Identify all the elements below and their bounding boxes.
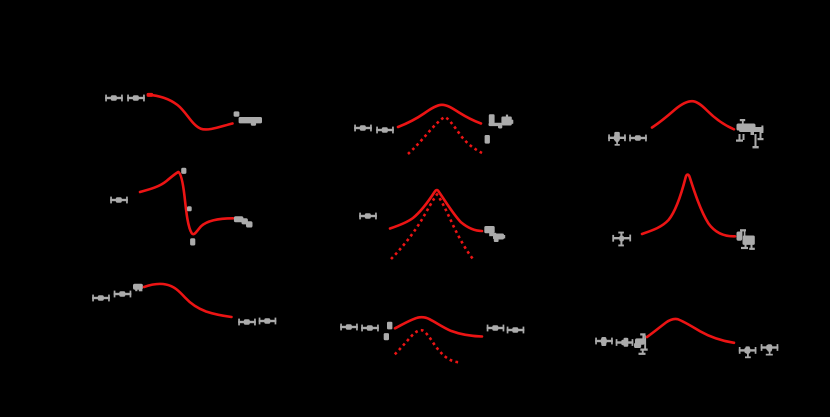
tall blob overlay (I left 1) — [601, 337, 606, 346]
product structure blob G — [736, 119, 764, 148]
energy curve B (peak then deep minimum) — [140, 172, 233, 234]
molecule label H-H (E left) — [359, 213, 377, 220]
molecule label H-H (C left 1) — [92, 295, 110, 302]
molecule label H-H (D left 1) — [354, 125, 372, 132]
energy curve D solid (activation barrier) — [398, 105, 481, 127]
energy curve F solid (low bump) — [395, 317, 482, 336]
energy curve C (gentle exothermic S) — [144, 284, 232, 317]
molecule label H-H (F right 2) — [507, 327, 525, 334]
energy curve F dashed (low bump) — [395, 330, 460, 362]
product label blob E — [484, 226, 505, 242]
dagger structure blob (I left 3) — [634, 333, 648, 355]
molecule label H-H (F right 1) — [487, 325, 505, 332]
molecule label H-H (G left 2) — [629, 135, 647, 142]
molecule label H-H funnel (G left 1) — [608, 134, 626, 141]
molecule label H-H (I right 1) — [739, 347, 757, 354]
intermediate blob (B middle) — [187, 206, 192, 211]
energy curve H (tall sharp barrier) — [642, 175, 735, 237]
molecule label H-H (F left 2) — [361, 325, 379, 332]
tall blob and foot (I right 1) — [745, 346, 751, 358]
stacked label blobs (F ts mark) — [384, 322, 393, 341]
tall blob overlay (I left 2) — [624, 338, 629, 347]
tall blob and foot (I right 2) — [766, 344, 773, 355]
molecule label H-H (I left 2) — [616, 339, 634, 346]
molecule label H-H (B left) — [110, 197, 128, 204]
transition state blob (B peak) — [181, 168, 186, 174]
molecule plus icon (H left) — [612, 232, 631, 247]
molecule label H-H (I right 2) — [761, 344, 779, 351]
molecule label H-H (A left 1) — [105, 95, 123, 102]
reactant blob Re (C) — [133, 284, 143, 292]
energy curve E solid (tall sharp barrier) — [390, 190, 482, 231]
energy curve G (rounded barrier) — [652, 101, 734, 129]
molecule label H-H (A left 2) — [127, 95, 145, 102]
molecule label H-H (I left 1) — [595, 338, 613, 345]
product label blob B — [234, 216, 253, 227]
energy curve D dashed (steeper barrier) — [408, 117, 482, 154]
molecule label H-H (C left 2) — [114, 291, 132, 298]
product label blob D — [489, 114, 514, 128]
molecule label H-H (C right 1) — [238, 319, 256, 326]
molecule label H-H (C right 2) — [259, 318, 277, 325]
funnel blob overlay (G left 1) — [614, 132, 620, 146]
product label blob H — [737, 229, 755, 250]
product label blob A — [239, 117, 262, 126]
energy curve I (low asymmetric barrier) — [647, 319, 734, 343]
energy curve A (exothermic S) — [148, 95, 233, 130]
energy curve E dashed (tall sharp barrier) — [391, 195, 473, 260]
superscript dot (A product) — [234, 111, 240, 116]
molecule label H-H (F left 1) — [340, 324, 358, 331]
start marker (A) — [147, 93, 154, 97]
minimum blob (B bottom) — [190, 238, 195, 245]
label 1 (D) — [485, 135, 490, 144]
molecule label H-H (D left 2) — [376, 127, 394, 134]
